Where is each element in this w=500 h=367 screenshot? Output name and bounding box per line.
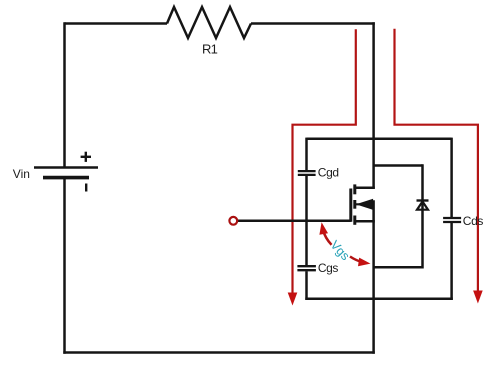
battery Vin bottom plate (-) [43,176,89,180]
wire: left vertical from top wire to battery + plate [63,22,66,167]
svg-text:Cds: Cds [463,214,484,228]
Vgs curved double arrow lower segment [350,257,363,263]
Vgs arrowhead up-left [319,222,328,235]
capacitor Cds [443,218,461,222]
wire: inner loop top edge (drain to diode) [374,164,423,167]
wire: box left edge middle segment (Cgd to Cgs) [305,176,308,265]
wire: top left horizontal from Vin branch to R1 [65,22,168,25]
wire: bottom horizontal return [63,351,375,354]
wire: source vertical from MOSFET down to bottom wire [372,200,375,353]
svg-text:Cgs: Cgs [318,261,339,275]
diode body (anode up triangle + cathode bar) [417,201,429,210]
gate input terminal circle [229,217,237,225]
svg-text:Cgd: Cgd [318,166,339,180]
transistor Q1 drain contact [355,187,375,190]
wire: top right horizontal from R1 to drain branch [251,22,375,25]
current path red: left down arrowhead [288,293,298,306]
node: parasitic box top edge [307,138,452,141]
current path red: left vertical from top [293,29,356,293]
transistor Q1 source contact [355,220,375,223]
wire: box left edge upper segment (to Cgd) [305,138,308,170]
battery Vin top plate (+) [34,166,98,169]
transistor Q1 body contact with arrow [355,199,374,209]
wire: box left edge lower segment (Cgs to bottom) [305,271,308,300]
Vgs curved double arrow upper segment [323,231,331,245]
svg-text:Vin: Vin [13,167,30,181]
capacitor Cgd [298,171,316,175]
transistor Q1 MOSFET gate bar [349,189,352,222]
battery minus marker [85,184,87,192]
capacitor Cgs [297,266,316,270]
wire: gate lead from terminal to gate bar [237,219,350,222]
current path red: right down arrowhead [473,291,483,304]
svg-text:R1: R1 [202,41,218,56]
battery plus sign [81,152,91,162]
wire: inner loop right edge with body diode [421,164,424,268]
wire: left vertical from battery - plate to bottom wire [63,178,66,354]
transistor Q1 channel segments [353,184,356,224]
current path red: right vertical from top [395,29,478,292]
resistor R1 [167,7,251,38]
Vgs arrowhead right [358,258,371,267]
wire: drain vertical from top wire down to MOSFET drain [372,22,375,189]
wire: box bottom edge [305,297,453,300]
wire: inner loop bottom edge (diode to source) [374,266,423,269]
wire: box right edge lower segment (Cds to bottom) [450,223,453,300]
wire: box right edge upper segment (to Cds) [450,138,453,217]
